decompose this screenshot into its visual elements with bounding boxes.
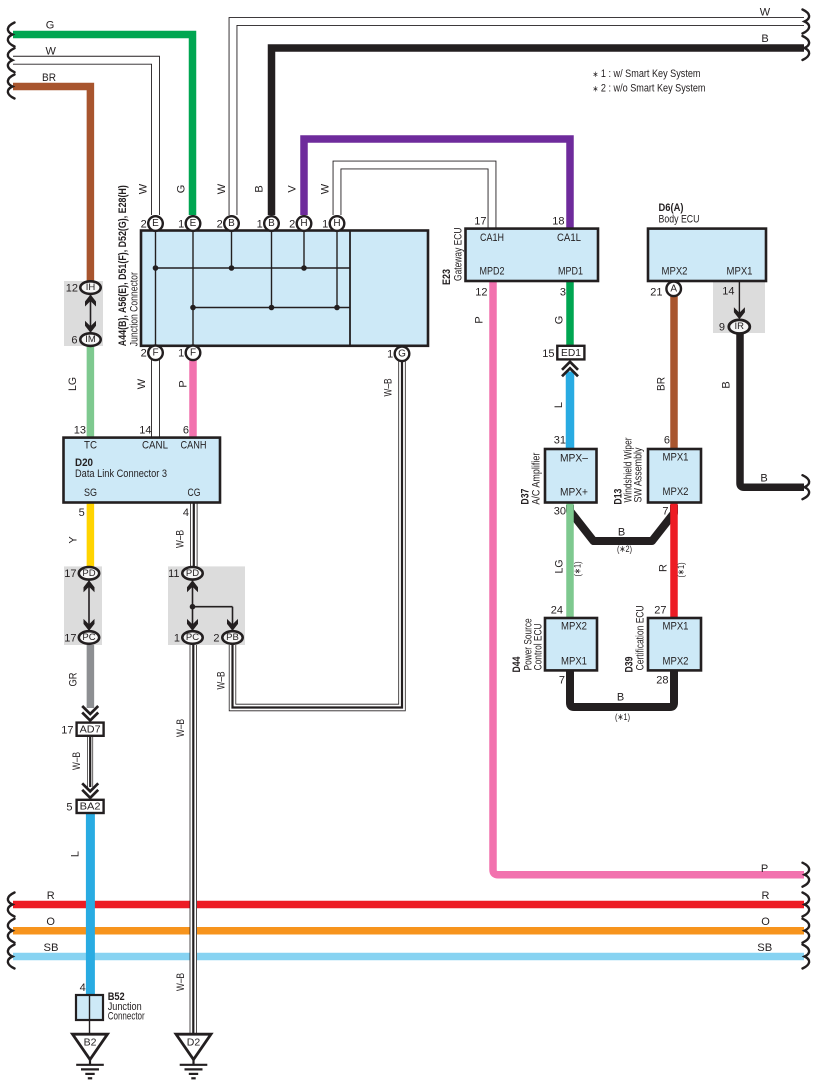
wire L blue from ED1 to D37 MPX- pin 31 — [566, 372, 575, 450]
svg-text:(∗2): (∗2) — [617, 544, 632, 555]
wire B black from junction pin 1B to top right edge — [272, 48, 805, 215]
certification ECU D39 box — [648, 618, 701, 670]
svg-text:TC: TC — [84, 440, 97, 452]
arrow link IH-IM — [85, 294, 96, 333]
pin 1F circle — [186, 346, 201, 361]
wire V violet from junction pin 2H to E23 CA1L pin 18 — [304, 139, 570, 229]
svg-text:Junction Connector: Junction Connector — [129, 272, 141, 346]
wire LG from IM to D20 TC pin 13 — [87, 346, 95, 438]
ground D2 earth symbol — [180, 1060, 208, 1079]
svg-text:D2: D2 — [187, 1037, 201, 1049]
svg-text:∗ 2 : w/o Smart Key System: ∗ 2 : w/o Smart Key System — [593, 82, 706, 94]
pin 1E circle — [186, 216, 201, 231]
wire L blue from BA2 to B52 pin 4 — [86, 813, 95, 995]
svg-text:12: 12 — [475, 287, 487, 299]
svg-text:MPX2: MPX2 — [663, 656, 689, 668]
svg-text:F: F — [152, 347, 158, 358]
svg-text:V: V — [287, 185, 299, 193]
svg-text:9: 9 — [719, 322, 725, 334]
svg-text:L: L — [70, 851, 82, 857]
wire W-B thin from AD7 to BA2 — [87, 736, 93, 787]
svg-text:B: B — [617, 692, 624, 704]
AD7 connector box — [77, 723, 104, 736]
svg-text:W–B: W–B — [175, 719, 187, 737]
wire GR gray from PC to AD7 — [87, 645, 95, 709]
svg-text:A/C Amplifier: A/C Amplifier — [531, 452, 543, 504]
svg-text:CG: CG — [188, 487, 201, 499]
svg-text:(∗1): (∗1) — [615, 712, 630, 723]
svg-text:MPX1: MPX1 — [727, 266, 753, 278]
svg-text:MPD2: MPD2 — [480, 266, 505, 278]
wire W white from junction pin 1H to E23 CA1H pin 17 — [337, 165, 492, 229]
data link connector 3 D20 box — [64, 438, 221, 503]
arrow links PD-PC-PB (right) — [187, 580, 238, 631]
svg-text:17: 17 — [64, 632, 76, 644]
svg-text:MPX1: MPX1 — [663, 621, 689, 633]
svg-text:D6(A): D6(A) — [659, 202, 684, 214]
svg-text:Gateway ECU: Gateway ECU — [453, 227, 465, 281]
wire LG from D37 MPX+ pin 30 to D44 MPX2 pin 24 — [566, 503, 574, 619]
svg-text:Control ECU: Control ECU — [533, 623, 545, 670]
wire W-B from PC to ground D2 — [190, 645, 197, 1035]
wire BR brown from D6 MPX2 pin 21 to D13 MPX1 pin 6 — [670, 296, 678, 449]
connector IH oval — [80, 281, 100, 294]
svg-text:1: 1 — [178, 348, 184, 360]
svg-text:PC: PC — [82, 632, 95, 643]
svg-text:MPD1: MPD1 — [558, 266, 583, 278]
svg-text:6: 6 — [664, 435, 670, 447]
junction connector bus 1 — [156, 267, 351, 269]
svg-text:2: 2 — [213, 632, 219, 644]
svg-text:Connector: Connector — [108, 1011, 145, 1023]
svg-text:12: 12 — [66, 282, 78, 294]
pin 1H circle — [330, 216, 345, 231]
svg-text:17: 17 — [64, 568, 76, 580]
svg-text:W: W — [760, 7, 771, 19]
svg-text:L: L — [553, 402, 565, 408]
junction bus dots — [153, 265, 159, 271]
wire break squiggles right — [803, 10, 810, 34]
svg-text:7: 7 — [559, 675, 565, 687]
svg-text:LG: LG — [554, 560, 566, 574]
svg-text:Certification ECU: Certification ECU — [635, 605, 647, 670]
svg-text:B2: B2 — [84, 1037, 97, 1049]
junction connector internal divider — [349, 231, 351, 346]
windshield wiper SW assembly D13 box — [648, 449, 701, 503]
svg-text:BA2: BA2 — [80, 801, 101, 813]
svg-text:PB: PB — [226, 632, 239, 643]
svg-text:B: B — [228, 218, 235, 229]
svg-text:MPX–: MPX– — [560, 453, 589, 465]
wire P pink from E23 MPD2 pin 12 to right edge — [493, 281, 804, 875]
wire B black (*2) from D37 pin 30 to D13 pin 7 — [570, 505, 674, 541]
svg-text:B: B — [618, 527, 625, 539]
svg-text:MPX2: MPX2 — [662, 266, 688, 278]
svg-text:1: 1 — [178, 218, 184, 230]
svg-text:MPX2: MPX2 — [663, 486, 689, 498]
wire W-B from PB to junction pin 1G — [233, 361, 403, 708]
svg-text:Y: Y — [68, 536, 80, 544]
svg-text:O: O — [46, 916, 55, 928]
svg-text:W: W — [138, 183, 150, 194]
svg-text:5: 5 — [66, 802, 72, 814]
svg-text:W–B: W–B — [175, 973, 187, 991]
svg-text:21: 21 — [650, 287, 662, 299]
svg-text:13: 13 — [74, 424, 86, 436]
svg-text:MPX+: MPX+ — [560, 487, 588, 499]
wire W-B from D20 CG pin 4 to PD — [190, 503, 197, 568]
svg-text:18: 18 — [552, 216, 564, 228]
svg-text:1: 1 — [257, 218, 263, 230]
svg-text:CANH: CANH — [181, 440, 207, 452]
svg-text:∗ 1 : w/ Smart Key System: ∗ 1 : w/ Smart Key System — [593, 68, 701, 80]
A/C amplifier D37 box — [545, 449, 597, 503]
svg-text:W: W — [136, 378, 148, 389]
arrow D6 pin14 to IR — [734, 281, 745, 319]
svg-text:4: 4 — [183, 507, 189, 519]
svg-text:W: W — [320, 183, 332, 194]
svg-text:A: A — [670, 283, 677, 294]
svg-text:(∗1): (∗1) — [573, 562, 584, 577]
svg-text:MPX2: MPX2 — [561, 621, 587, 633]
svg-text:15: 15 — [542, 348, 554, 360]
wire W white top left to junction pin 2E — [13, 60, 156, 215]
connector IR oval — [729, 320, 750, 334]
junction connector B52 box — [76, 995, 103, 1020]
connector PC oval (right) — [182, 631, 202, 644]
svg-text:2: 2 — [141, 218, 147, 230]
svg-text:B: B — [761, 33, 768, 45]
svg-text:E23: E23 — [441, 269, 453, 285]
svg-text:G: G — [176, 185, 188, 194]
svg-text:(∗1): (∗1) — [676, 563, 687, 578]
BA2 connector box — [77, 800, 104, 813]
pin 2E circle — [148, 216, 163, 231]
svg-text:PD: PD — [82, 568, 95, 579]
gateway ECU E23 box — [466, 229, 599, 281]
svg-text:R: R — [47, 890, 55, 902]
wire SB (bottom bus) — [13, 953, 804, 961]
pin 2F circle — [148, 346, 163, 361]
junction connector A44(B) A56(E) D51(F) D52(G) E28(H) box — [141, 231, 428, 346]
svg-text:CA1H: CA1H — [480, 232, 504, 244]
svg-text:1: 1 — [387, 349, 393, 361]
svg-text:G: G — [46, 20, 55, 32]
ED1 connector box — [557, 346, 584, 360]
svg-text:2: 2 — [217, 218, 223, 230]
svg-text:5: 5 — [79, 507, 85, 519]
svg-text:B: B — [721, 381, 733, 388]
svg-text:B: B — [254, 185, 266, 192]
chevron into AD7 — [82, 706, 98, 721]
svg-text:E: E — [190, 218, 197, 229]
junction connector internal wire 1E-1F — [192, 231, 194, 346]
svg-text:ED1: ED1 — [561, 347, 581, 359]
svg-text:A44(B), A56(E), D51(F), D52(G): A44(B), A56(E), D51(F), D52(G), E28(H) — [117, 185, 129, 346]
svg-text:E: E — [152, 218, 159, 229]
gray box behind PD PC PB connectors (right) — [168, 566, 245, 645]
connector IM oval — [80, 333, 100, 346]
svg-text:2: 2 — [141, 348, 147, 360]
svg-text:30: 30 — [554, 506, 566, 518]
svg-text:IM: IM — [85, 334, 96, 345]
svg-text:LG: LG — [67, 377, 79, 391]
pin 21 A circle — [666, 282, 681, 297]
svg-text:2: 2 — [289, 218, 295, 230]
junction connector internal wire 2E-2F — [155, 231, 157, 346]
svg-text:AD7: AD7 — [80, 723, 101, 735]
svg-text:17: 17 — [61, 724, 73, 736]
svg-text:3: 3 — [560, 287, 566, 299]
chevron into ED1 — [562, 362, 578, 377]
svg-text:BR: BR — [42, 72, 56, 84]
svg-text:CA1L: CA1L — [557, 232, 581, 244]
svg-text:W–B: W–B — [175, 530, 187, 548]
svg-text:G: G — [398, 348, 406, 359]
arrow link PD-PC (left) — [84, 580, 95, 631]
svg-text:1: 1 — [174, 632, 180, 644]
body ECU D6(A) box — [648, 229, 766, 281]
wire R (bottom bus) — [13, 901, 804, 909]
svg-text:G: G — [554, 316, 566, 325]
power source control ECU D44 box — [545, 618, 597, 670]
svg-text:W–B: W–B — [71, 752, 83, 770]
connector PC oval (left) — [79, 631, 99, 644]
svg-text:IH: IH — [86, 282, 96, 293]
gray box behind PD PC connectors (left) — [64, 566, 102, 645]
line B52 to B2 — [89, 1020, 91, 1034]
junction connector internal wire 1H — [336, 231, 338, 308]
gray box behind IH IM connectors — [64, 281, 103, 346]
wire BR brown top left to connector IH — [13, 87, 90, 282]
svg-text:17: 17 — [474, 216, 486, 228]
junction connector internal wire 2B — [231, 231, 233, 269]
junction connector internal wire 2H — [303, 231, 305, 269]
chevron into BA2 — [82, 783, 98, 798]
svg-text:W–B: W–B — [383, 379, 395, 397]
svg-text:W: W — [216, 183, 228, 194]
pin 2B circle — [224, 216, 239, 231]
svg-text:IR: IR — [735, 321, 745, 332]
svg-text:Data Link Connector 3: Data Link Connector 3 — [75, 468, 167, 480]
svg-text:1: 1 — [322, 218, 328, 230]
svg-text:Body ECU: Body ECU — [659, 214, 700, 226]
svg-text:PC: PC — [186, 632, 199, 643]
junction connector internal wire 1B — [271, 231, 273, 308]
pin 1B circle — [264, 216, 279, 231]
svg-text:GR: GR — [68, 672, 80, 686]
svg-text:F: F — [190, 347, 196, 358]
svg-text:MPX1: MPX1 — [663, 452, 689, 464]
gray box behind D6 pin14 IR connector — [713, 282, 765, 333]
wire B black (*1) from D44 pin 7 to D39 pin 28 — [570, 670, 674, 707]
pin 1G circle — [395, 347, 410, 362]
svg-text:R: R — [762, 890, 770, 902]
ground B2 earth symbol — [76, 1060, 104, 1079]
svg-text:SW Assembly: SW Assembly — [633, 447, 645, 502]
B52 divider — [89, 995, 91, 1020]
svg-text:6: 6 — [183, 424, 189, 436]
svg-text:O: O — [761, 916, 770, 928]
svg-text:H: H — [333, 218, 340, 229]
connector PD oval (right) — [182, 567, 202, 580]
junction connector bus 2 — [193, 307, 350, 309]
ground D2 triangle — [176, 1034, 211, 1059]
wire W white from junction pin 2F to D20 CANL pin 14 — [151, 359, 160, 438]
svg-text:CANL: CANL — [142, 440, 168, 452]
svg-text:B: B — [760, 473, 767, 485]
svg-text:27: 27 — [654, 605, 666, 617]
svg-text:4: 4 — [80, 982, 86, 994]
svg-text:6: 6 — [71, 334, 77, 346]
svg-text:31: 31 — [554, 435, 566, 447]
svg-text:W–B: W–B — [216, 672, 228, 690]
wire B black from IR to right edge — [740, 334, 804, 488]
wire W white from junction pin 2B to top right edge — [233, 22, 804, 216]
svg-text:H: H — [300, 218, 307, 229]
wire P pink from junction pin 1F to D20 CANH pin 6 — [189, 359, 197, 438]
svg-text:R: R — [658, 564, 670, 572]
svg-text:BR: BR — [656, 377, 668, 391]
wire G green top left to junction pin 1E — [13, 35, 193, 216]
svg-text:W: W — [46, 46, 57, 58]
svg-text:PD: PD — [186, 568, 199, 579]
connector PD oval (left) — [79, 567, 99, 580]
svg-text:B: B — [268, 218, 275, 229]
svg-text:14: 14 — [722, 286, 734, 298]
svg-text:P: P — [761, 863, 768, 875]
svg-text:24: 24 — [551, 605, 563, 617]
svg-text:SG: SG — [84, 487, 97, 499]
svg-text:11: 11 — [168, 568, 179, 580]
ground B2 triangle — [73, 1034, 108, 1059]
wire O (bottom bus) — [13, 927, 804, 935]
svg-text:P: P — [474, 316, 486, 323]
svg-text:7: 7 — [662, 506, 668, 518]
svg-text:28: 28 — [656, 675, 668, 687]
wire break squiggles left — [8, 23, 15, 47]
svg-text:P: P — [178, 380, 190, 387]
wire R red from D13 MPX2 pin 7 to D39 MPX1 pin 27 — [670, 503, 678, 619]
wire Y yellow from D20 SG pin 5 to PD — [87, 503, 95, 568]
svg-text:14: 14 — [139, 424, 151, 436]
pin 2H circle — [297, 216, 312, 231]
wire G green from E23 MPD1 pin 3 to ED1 — [566, 281, 574, 346]
svg-text:SB: SB — [44, 942, 59, 954]
svg-text:MPX1: MPX1 — [561, 656, 587, 668]
connector PB oval — [222, 631, 242, 644]
svg-text:SB: SB — [757, 942, 772, 954]
svg-text:D44: D44 — [511, 656, 523, 673]
